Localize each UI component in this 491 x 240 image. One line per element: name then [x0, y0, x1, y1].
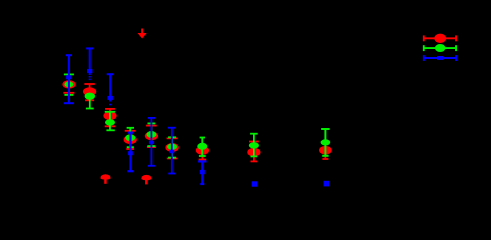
- data column 8: green error bar: [250, 134, 258, 157]
- data column 4: green marker: [125, 134, 135, 141]
- data column 6: green error bar: [168, 137, 176, 157]
- data column 8: red error bar: [249, 142, 259, 162]
- legend entry green: error bar: [424, 45, 456, 51]
- data column 4: blue error bar: [127, 133, 133, 172]
- data column 6: red error bar: [167, 138, 178, 158]
- data column 3: green marker: [105, 119, 115, 125]
- data column 6: blue square marker: [169, 150, 174, 154]
- legend entry red: error bar: [424, 35, 456, 41]
- data column 2: red marker: [83, 87, 96, 96]
- data column 2: green error bar: [86, 96, 94, 108]
- data column 2: red error bar: [84, 84, 94, 100]
- data column 5: red marker: [145, 132, 158, 141]
- data column 9: green error bar: [321, 129, 329, 156]
- data column 3: blue error bar: [107, 74, 114, 101]
- data column 6: blue error bar: [168, 128, 176, 174]
- data column 5: green error bar: [147, 123, 155, 146]
- data column 5: blue error bar: [148, 118, 155, 166]
- data column 1: red marker: [62, 80, 75, 88]
- data column 3: green error bar: [105, 112, 116, 131]
- legend entry green: marker: [435, 44, 445, 52]
- data column 8: red marker: [247, 148, 260, 157]
- data column 5: green marker: [146, 131, 156, 138]
- data column 7: green marker: [197, 143, 207, 150]
- data column 3: red marker: [103, 112, 116, 121]
- legend entry blue: marker: [437, 56, 443, 60]
- data column 9: green marker: [321, 139, 331, 145]
- data column 3: blue square marker: [108, 96, 113, 100]
- data column 7: blue square marker: [200, 170, 205, 174]
- data column 2: blue dotted bar end: [89, 76, 91, 80]
- data column 9: blue square marker: [324, 181, 329, 187]
- data column 1: blue error bar: [64, 55, 74, 103]
- data column 7: red error bar: [199, 150, 207, 159]
- data column 3: red error bar: [105, 109, 116, 126]
- data column 9: red marker: [319, 146, 332, 155]
- data column 4: red marker: [124, 135, 137, 144]
- data column 6: red marker: [165, 143, 178, 152]
- red down-arrow upper limit at x=142: [138, 29, 147, 39]
- data column 1: green marker: [64, 81, 73, 87]
- data column 7: red marker: [196, 146, 209, 155]
- data column 4: blue square marker: [128, 151, 133, 155]
- data column 2: blue square marker: [87, 69, 92, 73]
- data column 8: blue square marker: [252, 181, 258, 186]
- data column 4: green error bar: [127, 128, 134, 147]
- data column 5: blue square marker: [149, 141, 154, 144]
- red limit marker at x=105: [100, 174, 110, 184]
- data column 7: green error bar: [199, 138, 206, 157]
- legend entry red: marker: [434, 34, 446, 43]
- data column 7: blue error bar: [198, 161, 206, 184]
- red limit marker at x=146: [141, 175, 151, 185]
- data column 1: green error bar: [64, 74, 74, 95]
- legend entry blue: error bar: [424, 55, 456, 61]
- data column 3: blue dotted bar end: [109, 104, 111, 106]
- data column 1: blue square marker: [66, 75, 71, 79]
- data column 1: red error bar: [63, 86, 74, 93]
- data column 6: green marker: [167, 144, 177, 150]
- data column 8: green marker: [249, 142, 259, 148]
- data column 4: red error bar: [125, 131, 136, 149]
- data column 2: green marker: [85, 93, 95, 100]
- data column 5: red error bar: [146, 126, 157, 148]
- data column 2: blue error bar: [86, 48, 93, 75]
- data column 9: red error bar: [322, 150, 328, 159]
